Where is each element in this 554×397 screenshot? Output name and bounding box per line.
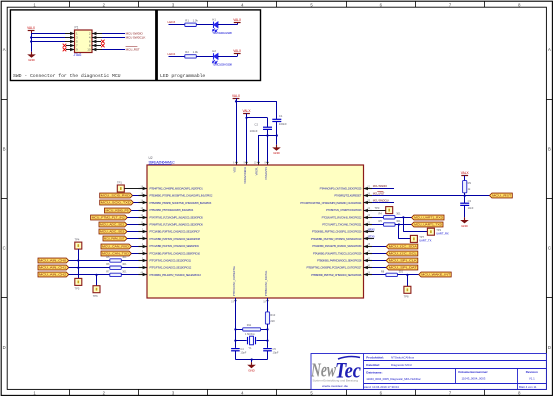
svg-text:23: 23: [367, 214, 370, 217]
svg-text:301: 301: [399, 269, 404, 273]
capacitor C3 10nF: [460, 199, 474, 210]
designator P1: [75, 26, 79, 30]
svg-text:R10: R10: [270, 313, 275, 317]
wire XTAL vertical upper: [267, 298, 269, 312]
svg-text:MCU_KBI0_P5: MCU_KBI0_P5: [106, 209, 130, 213]
svg-text:R9: R9: [468, 181, 472, 185]
net label MCU SWDCLK: [126, 36, 147, 40]
svg-text:MCU SWDCLK: MCU SWDCLK: [126, 36, 147, 40]
resistor R7 301: [106, 269, 127, 276]
svg-text:Blatt 4 von 11: Blatt 4 von 11: [519, 385, 537, 389]
microcontroller U2 body: [147, 165, 364, 298]
svg-text:VDD: VDD: [232, 167, 236, 173]
svg-text:PTC0/KBI0_P0/FTM1_CH0/ADC0_SE8: PTC0/KBI0_P0/FTM1_CH0/ADC0_SE8/GPIO10: [150, 251, 201, 255]
net label MCU RST: [373, 191, 385, 195]
net label MCU_RST: [126, 47, 140, 52]
IC right pin stubs + numbers: [364, 185, 373, 276]
wire MCU_AIN_CH2 to R7: [69, 274, 110, 276]
svg-text:UART_TX: UART_TX: [419, 239, 431, 243]
svg-text:PTC7/UART1_TX/CAN0_TX/GPIO21: PTC7/UART1_TX/CAN0_TX/GPIO21: [322, 223, 362, 227]
svg-text:MCU_UART1_RXD: MCU_UART1_RXD: [414, 216, 443, 220]
logo url: [322, 384, 349, 388]
port MCU_I2C_SCL: [372, 251, 418, 256]
NewTec logo: [310, 357, 361, 383]
svg-text:LED4: LED4: [168, 52, 176, 56]
svg-text:R2: R2: [185, 50, 189, 54]
IC left pin stubs + numbers: [139, 185, 148, 276]
svg-text:11043_0004_0005_Diagnostic_MCU: 11043_0004_0005_Diagnostic_MCU.SchDoc: [366, 377, 421, 381]
wire MCU_AIN_CH1 to R6: [69, 267, 110, 269]
svg-text:TP8: TP8: [404, 295, 409, 299]
pin9 stub + no-connect X: [63, 48, 75, 52]
capacitor C5 10pF: [263, 347, 279, 354]
SWD room caption: [13, 73, 121, 79]
LED H2: [212, 49, 218, 63]
svg-text:R8: R8: [381, 269, 385, 273]
svg-text:R1: R1: [185, 19, 189, 23]
net label LED4: [168, 52, 176, 56]
svg-text:2: 2: [103, 2, 106, 7]
svg-text:V1.1: V1.1: [529, 377, 535, 381]
power VALX (LED row 1): [233, 18, 242, 23]
svg-text:4: 4: [241, 2, 244, 7]
wire VALX2 to C2: [245, 117, 267, 127]
ground GND (oscillator): [247, 362, 256, 372]
svg-text:PTA6/FTM2_FLT1/ACMP1_IN0/ADC0_: PTA6/FTM2_FLT1/ACMP1_IN0/ADC0_SE2/GPIO6: [150, 223, 204, 227]
svg-text:220: 220: [270, 319, 275, 323]
svg-text:PTB6/XOSC_IN/XTAL: PTB6/XOSC_IN/XTAL: [264, 270, 268, 296]
testpoint TP8: [404, 286, 411, 298]
svg-text:VDDA/VREFH: VDDA/VREFH: [243, 167, 247, 184]
svg-text:TP5: TP5: [75, 287, 80, 291]
power VALX (SWD): [27, 26, 36, 34]
svg-text:PTC5/FTM1_CH1/RTCO/GPIO23: PTC5/FTM1_CH1/RTCO/GPIO23: [326, 208, 362, 212]
net label LED3: [168, 20, 176, 24]
svg-text:System-Entwicklung und Beratun: System-Entwicklung und Beratung: [313, 379, 359, 383]
svg-text:VREFL: VREFL: [254, 166, 258, 175]
svg-text:H1: H1: [212, 17, 216, 21]
testpoint TP1: [117, 181, 139, 192]
port MCU_FTM2_FLT_IN2: [91, 215, 139, 220]
svg-text:PTB1/KBI0_P5/TXD0/ACMP0_IN1/GP: PTB1/KBI0_P5/TXD0/ACMP0_IN1/GPIO4: [150, 208, 194, 212]
port MCU_AIN_CH0: [38, 258, 69, 263]
svg-text:GND: GND: [28, 58, 34, 62]
svg-text:PTB6/KBI0_P6/FTM2_CH5/ADC0_SE7: PTB6/KBI0_P6/FTM2_CH5/ADC0_SE7/GPIO26: [311, 273, 362, 277]
resistor R5 301: [106, 255, 127, 262]
svg-text:1.0k: 1.0k: [193, 19, 199, 23]
wire C5 down: [267, 351, 269, 360]
svg-text:TP3: TP3: [375, 206, 380, 210]
svg-text:TP7: TP7: [419, 235, 424, 239]
wire EXTAL vertical: [235, 298, 237, 348]
svg-text:SWD - Connector for the diagno: SWD - Connector for the diagnostic MCU: [13, 73, 121, 79]
svg-text:TP1: TP1: [117, 181, 122, 185]
svg-text:MCU_AIN_CH1: MCU_AIN_CH1: [39, 266, 67, 270]
svg-text:19: 19: [231, 301, 234, 304]
svg-text:TP6: TP6: [93, 294, 98, 298]
port MCU_I2C_SDA: [372, 244, 418, 249]
title block texts: [363, 355, 538, 388]
wire feedback row: [234, 328, 268, 330]
svg-text:MCU SWDIO: MCU SWDIO: [373, 184, 387, 188]
net label MCU SWDIO: [126, 32, 144, 36]
svg-text:P1: P1: [75, 26, 79, 30]
wire C1 to GND rail: [276, 122, 278, 145]
label JTAG: [74, 53, 82, 57]
wire rail to GND: [251, 360, 253, 363]
resistor R9 1k: [463, 181, 472, 193]
svg-text:URX0: URX0: [368, 229, 375, 232]
svg-text:PTB5/FTM2_CH5/SPI0_PCS/ACMP1_O: PTB5/FTM2_CH5/SPI0_PCS/ACMP1_OUT/GPIO27: [307, 266, 362, 270]
svg-text:www.newtec.de: www.newtec.de: [322, 384, 349, 388]
svg-text:JTAG: JTAG: [74, 53, 82, 57]
svg-text:NTSwitchCANbus: NTSwitchCANbus: [391, 355, 415, 359]
svg-text:PTD1/KBI1_P1/FTM2_CH3/SPI1_MOS: PTD1/KBI1_P1/FTM2_CH3/SPI1_MOSI/GPIO19: [311, 237, 362, 241]
svg-text:301: 301: [396, 219, 401, 223]
svg-text:U2: U2: [149, 156, 153, 160]
wire SWD_CLK stub: [372, 202, 394, 204]
wire R4 to port: [395, 216, 412, 218]
part number TLMY1000-GS08: [212, 31, 232, 35]
svg-text:6: 6: [233, 161, 235, 164]
IC top pin names VDD VDDA VREFL VSS: [232, 161, 268, 183]
wire TP4 tap: [77, 249, 79, 278]
svg-text:D: D: [548, 345, 551, 350]
svg-text:Diagnostic MCU: Diagnostic MCU: [391, 363, 412, 367]
svg-text:D: D: [3, 345, 6, 350]
IC bottom pin names EXTAL XTAL: [231, 265, 269, 303]
LED room box: [157, 10, 260, 81]
wire R5 to port: [395, 223, 412, 225]
port MCU_RST: [490, 193, 513, 198]
power VALX (LED row 2): [233, 49, 242, 54]
svg-text:C: C: [3, 246, 6, 251]
svg-text:Produkttitel:: Produkttitel:: [366, 355, 384, 359]
wire VDD vertical: [236, 101, 238, 165]
testpoint TP7: [410, 235, 431, 242]
svg-text:TP2: TP2: [436, 228, 441, 232]
svg-text:10pF: 10pF: [273, 351, 279, 355]
port MCU_PWM_OUT: [103, 236, 139, 241]
resistor R2 1.0k: [185, 50, 199, 58]
svg-text:C5: C5: [273, 347, 277, 351]
testpoint TP6: [93, 286, 100, 298]
wire pin5: [30, 40, 75, 42]
wire MCU_AIN_CH0 to R5: [69, 260, 110, 262]
title block grid: [311, 354, 546, 390]
svg-text:28: 28: [367, 243, 370, 246]
svg-text:PTC1/KBI0_P1/FTM1_CH1/ADC0_SE9: PTC1/KBI0_P1/FTM1_CH1/ADC0_SE9/GPIO9: [150, 244, 200, 248]
capacitor C4 10pF: [231, 347, 247, 354]
wire R8 to port: [397, 274, 418, 276]
wire R7 to IC: [121, 274, 138, 276]
svg-text:MCU_PWM_OUT: MCU_PWM_OUT: [104, 237, 125, 241]
svg-text:MCU_SPI_DAT: MCU_SPI_DAT: [389, 266, 418, 270]
port MCU_SPI_DAT: [372, 265, 418, 270]
capacitor C2 100nF: [250, 123, 272, 133]
wire VALX to pin1: [31, 33, 74, 35]
svg-text:VALX: VALX: [243, 109, 252, 113]
wire RESET net: [372, 195, 490, 197]
wire TP6 tap: [95, 274, 97, 286]
wire C3 to GND: [464, 205, 466, 217]
wire H1 to VALX: [218, 22, 238, 25]
svg-text:VALX: VALX: [233, 18, 242, 22]
svg-text:GND: GND: [248, 369, 254, 373]
wire pin10 to label: [92, 49, 125, 51]
testpoint TP3: [372, 206, 393, 214]
net stub UTX0: [364, 236, 376, 239]
svg-text:MCU_SPI_CLK: MCU_SPI_CLK: [389, 259, 417, 263]
svg-text:A: A: [3, 47, 6, 52]
port MCU_SCI0_RXD: [100, 193, 139, 198]
pin6 stub + no-connect X: [92, 40, 105, 44]
svg-text:301: 301: [122, 269, 127, 273]
svg-text:MCU_AIN_CH2: MCU_AIN_CH2: [39, 273, 67, 277]
svg-text:C3: C3: [468, 199, 472, 203]
ground GND (reset): [460, 217, 469, 227]
pin8 stub + no-connect X: [92, 44, 105, 48]
wire GND rail vertical: [31, 34, 33, 52]
svg-text:R5: R5: [379, 219, 383, 223]
svg-text:MCU SWDCLK: MCU SWDCLK: [373, 199, 390, 203]
resistor R10 220: [265, 312, 275, 324]
svg-text:24: 24: [367, 207, 370, 210]
svg-text:1.0k: 1.0k: [193, 50, 199, 54]
svg-text:PTA2/KBI0_P2/UART0_RX/I2C0_SDA: PTA2/KBI0_P2/UART0_RX/I2C0_SDA/GPIO30: [312, 244, 362, 248]
port MCU_ADC_SE2: [99, 222, 139, 227]
svg-text:6: 6: [380, 2, 383, 7]
svg-text:C2: C2: [254, 123, 258, 127]
wire LED4 to R2: [169, 56, 185, 58]
SWD connector room box: [10, 10, 155, 81]
port MCU_SPI_CLK: [372, 258, 418, 263]
svg-text:R6: R6: [106, 262, 110, 266]
svg-text:TLMY1000-GS08: TLMY1000-GS08: [212, 31, 232, 35]
svg-text:MCU_ADC_SE3: MCU_ADC_SE3: [100, 230, 125, 234]
svg-text:C1: C1: [279, 114, 283, 118]
designator U2: [149, 156, 153, 160]
svg-text:UART_RX: UART_RX: [436, 231, 449, 235]
svg-text:PTA7/FTM2_FLT2/ACMP1_IN1/ADC0_: PTA7/FTM2_FLT2/ACMP1_IN1/ADC0_SE3/GPIO5: [150, 215, 204, 219]
svg-text:8: 8: [518, 2, 521, 7]
svg-text:1k: 1k: [468, 187, 471, 191]
port MCU_ADC_SE3: [99, 229, 139, 234]
svg-text:MCU_RST: MCU_RST: [492, 194, 512, 198]
wire crystal row: [234, 340, 268, 342]
port MCU_SCI0_TXD: [100, 200, 139, 205]
net label MCU SWD_DIO: [373, 184, 387, 188]
svg-text:TP4: TP4: [75, 238, 80, 242]
svg-text:S9KEAZN64AMLC: S9KEAZN64AMLC: [149, 161, 176, 165]
svg-text:MCU_UART1_TXD: MCU_UART1_TXD: [414, 223, 442, 227]
svg-text:PTF2/FTM2_CH0/ADC0_SE12/GPIO11: PTF2/FTM2_CH0/ADC0_SE12/GPIO11: [150, 259, 192, 263]
wire osc ground rail: [235, 358, 267, 360]
svg-text:R7: R7: [106, 269, 110, 273]
svg-text:MCU_RST: MCU_RST: [126, 48, 140, 52]
svg-text:9: 9: [244, 161, 246, 164]
svg-text:10: 10: [254, 161, 257, 164]
port MCU_UART1_TXD: [412, 222, 444, 227]
svg-text:R4: R4: [379, 212, 383, 216]
svg-text:PTA5/IRQ/TCLK0/RESET: PTA5/IRQ/TCLK0/RESET: [334, 194, 361, 198]
svg-text:VALX: VALX: [233, 49, 242, 53]
resistor R1 1.0k: [185, 19, 199, 27]
net stub URX0: [364, 229, 376, 232]
testpoint TP4: [75, 238, 82, 250]
svg-text:22: 22: [367, 221, 370, 224]
resistor R11 1 MOhm: [243, 323, 261, 336]
svg-text:Revision: Revision: [526, 370, 538, 374]
svg-text:21: 21: [367, 185, 370, 188]
svg-text:PTA4/ACMP0_OUT/SWD_DIO/GPIO25: PTA4/ACMP0_OUT/SWD_DIO/GPIO25: [320, 187, 362, 191]
wire pin4 to label: [92, 37, 125, 39]
svg-text:VALX: VALX: [27, 26, 36, 30]
svg-text:Stand: 10.04.2019 17:30:04: Stand: 10.04.2019 17:30:04: [363, 385, 399, 389]
wire R6 to IC: [121, 267, 138, 269]
part number TLMC1000-GS08: [212, 62, 232, 66]
svg-text:R5: R5: [106, 255, 110, 259]
resistor R5b 301: [372, 219, 401, 226]
svg-text:PTB7/XOSC_OUT/EXTAL: PTB7/XOSC_OUT/EXTAL: [232, 265, 236, 296]
wire to TP8: [407, 275, 409, 286]
port MCU_CAN_TXD: [101, 251, 139, 256]
svg-text:MCU_FTM2_FLT_IN2: MCU_FTM2_FLT_IN2: [92, 216, 126, 220]
svg-text:C4: C4: [240, 347, 244, 351]
svg-text:3: 3: [172, 2, 175, 7]
testpoint TP5: [75, 278, 82, 290]
ground GND (decoupling): [272, 145, 281, 155]
power VALX (reset): [461, 171, 470, 181]
svg-text:PTA3/KBI0_P3/UART0_TX/I2C0_SCL: PTA3/KBI0_P3/UART0_TX/I2C0_SCL/GPIO29: [313, 251, 362, 255]
svg-text:10nF: 10nF: [468, 206, 474, 210]
wire R9 to net: [464, 193, 466, 204]
part S9KEAZN64AMLC: [149, 161, 176, 165]
svg-text:GND: GND: [273, 151, 279, 155]
svg-text:A: A: [548, 47, 551, 52]
port MCU_UART1_RXD: [412, 215, 445, 220]
wire C2 to rail: [267, 129, 269, 135]
power VALX (VDD): [232, 94, 241, 102]
wire to TP4r: [399, 225, 411, 239]
svg-text:New: New: [310, 360, 336, 382]
svg-text:301: 301: [396, 212, 401, 216]
wire pin2 to label: [92, 33, 125, 35]
svg-text:VALX: VALX: [461, 171, 470, 175]
LED H1: [212, 17, 218, 31]
svg-text:PTB0/KBI0_P4/RXD0/ADC0_SE4/GPI: PTB0/KBI0_P4/RXD0/ADC0_SE4/GPIO28: [317, 259, 362, 263]
svg-text:MCU_RST: MCU_RST: [373, 191, 385, 195]
svg-text:R11: R11: [247, 323, 252, 327]
svg-text:TLMC1000-GS08: TLMC1000-GS08: [212, 62, 232, 66]
wire VALX to C1: [235, 100, 277, 119]
port MCU_WAKE_INT: [419, 272, 452, 277]
port MCU_AIN_CH1: [38, 265, 69, 270]
svg-text:H2: H2: [212, 49, 216, 53]
svg-text:PTC2/KBI0_P2/FTM2_CH2/ADC0_SE1: PTC2/KBI0_P2/FTM2_CH2/ADC0_SE10/GPIO8: [150, 237, 201, 241]
svg-text:301: 301: [122, 262, 127, 266]
svg-text:MCU_I2C_SDA: MCU_I2C_SDA: [389, 245, 417, 249]
svg-text:B: B: [3, 146, 6, 151]
wire R5 to IC: [121, 260, 138, 262]
svg-text:C: C: [548, 246, 551, 251]
IC left pin name texts: [150, 187, 213, 277]
wire R1 to H1: [196, 24, 213, 26]
svg-text:PTB2/KBI0_P6/SPI0_SCK/FTM0_CH0: PTB2/KBI0_P6/SPI0_SCK/FTM0_CH0/ACMP0_IN2…: [150, 201, 212, 205]
svg-text:18: 18: [263, 301, 266, 304]
wire VDDA vertical: [246, 118, 248, 165]
svg-text:PTB3/KBI0_P7/SPI0_MOSI/FTM0_CH: PTB3/KBI0_P7/SPI0_MOSI/FTM0_CH1/ACMP1_IN…: [150, 194, 213, 198]
svg-text:1: 1: [33, 2, 36, 7]
svg-text:MCU_AIN_CH0: MCU_AIN_CH0: [39, 259, 67, 263]
wire VSS vertical: [267, 136, 269, 166]
svg-text:MCU_SCI0_RXD: MCU_SCI0_RXD: [101, 194, 130, 198]
svg-text:27: 27: [367, 250, 370, 253]
wire C4 down: [235, 351, 237, 360]
svg-text:LED3: LED3: [168, 20, 176, 24]
svg-text:MCU_CAN_RXD: MCU_CAN_RXD: [102, 245, 129, 249]
svg-text:301: 301: [122, 255, 127, 259]
wire LED3 to R1: [169, 24, 185, 26]
svg-text:UTX0: UTX0: [368, 236, 375, 239]
svg-text:7: 7: [449, 2, 452, 7]
svg-text:Y1: Y1: [248, 346, 252, 350]
port MCU_CAN_RXD: [101, 244, 139, 249]
svg-text:31: 31: [367, 257, 370, 260]
svg-text:11043_0004_0003: 11043_0004_0003: [462, 377, 486, 381]
svg-text:5: 5: [310, 2, 313, 7]
svg-text:MCU_ADC_SE2: MCU_ADC_SE2: [100, 223, 125, 227]
testpoint TP2: [427, 228, 449, 235]
port MCU_KBI0_P5: [105, 208, 139, 213]
crystal Y1: [248, 336, 256, 350]
ground GND (SWD): [27, 52, 36, 62]
resistor R4 301: [372, 212, 401, 219]
LED room caption: [160, 73, 205, 79]
wire R2 to H2: [196, 56, 213, 58]
svg-text:1 MOhm: 1 MOhm: [245, 332, 255, 336]
svg-text:MCU_SCI0_TXD: MCU_SCI0_TXD: [101, 201, 131, 205]
svg-text:Dokumentennummer:: Dokumentennummer:: [458, 370, 488, 374]
resistor R6 301: [106, 262, 127, 269]
wire VREFL vertical: [258, 136, 260, 166]
wire pin3: [30, 36, 75, 38]
wire R10 down: [267, 324, 269, 348]
capacitor C1 100nF: [272, 114, 287, 126]
resistor R8 301: [372, 269, 403, 276]
svg-text:PTC4/RTCO/FTM1_CH0/ACMP0_IN2/S: PTC4/RTCO/FTM1_CH0/ACMP0_IN2/SWD_CLK/GPI…: [300, 201, 362, 205]
svg-text:LED programmable: LED programmable: [160, 73, 205, 79]
svg-text:PTF0/KBI1_P5/UART2_TX/ADC0_SE1: PTF0/KBI1_P5/UART2_TX/ADC0_SE14/GPIO13: [150, 273, 202, 277]
svg-text:PTF1/FTM2_CH1/ADC0_SE13/GPIO12: PTF1/FTM2_CH1/ADC0_SE13/GPIO12: [150, 266, 192, 270]
IC right pin name texts: [300, 187, 362, 277]
svg-text:PTC6/UART1_RX/CAN0_RX/GPIO22: PTC6/UART1_RX/CAN0_RX/GPIO22: [322, 215, 362, 219]
svg-text:PTB4/FTM2_CH4/SPI0_MISO/ACMP1_: PTB4/FTM2_CH4/SPI0_MISO/ACMP1_IN2/GPIO1: [150, 187, 204, 191]
svg-text:10: 10: [87, 48, 91, 52]
wire SWD_DIO stub: [372, 188, 394, 190]
svg-text:100nF: 100nF: [279, 122, 287, 126]
svg-text:Dateititel:: Dateititel:: [366, 363, 380, 367]
port MCU_AIN_CH2: [38, 272, 69, 277]
svg-text:10pF: 10pF: [240, 351, 246, 355]
svg-text:8: 8: [265, 161, 267, 164]
wire VREFL/VSS rail: [258, 134, 278, 136]
svg-text:MCU_WAKE_INT: MCU_WAKE_INT: [421, 273, 450, 277]
svg-text:VSSA/VSS: VSSA/VSS: [264, 167, 268, 180]
svg-text:B: B: [548, 146, 551, 151]
svg-text:VALX: VALX: [232, 94, 241, 98]
pin7 stub + no-connect X: [63, 44, 75, 48]
